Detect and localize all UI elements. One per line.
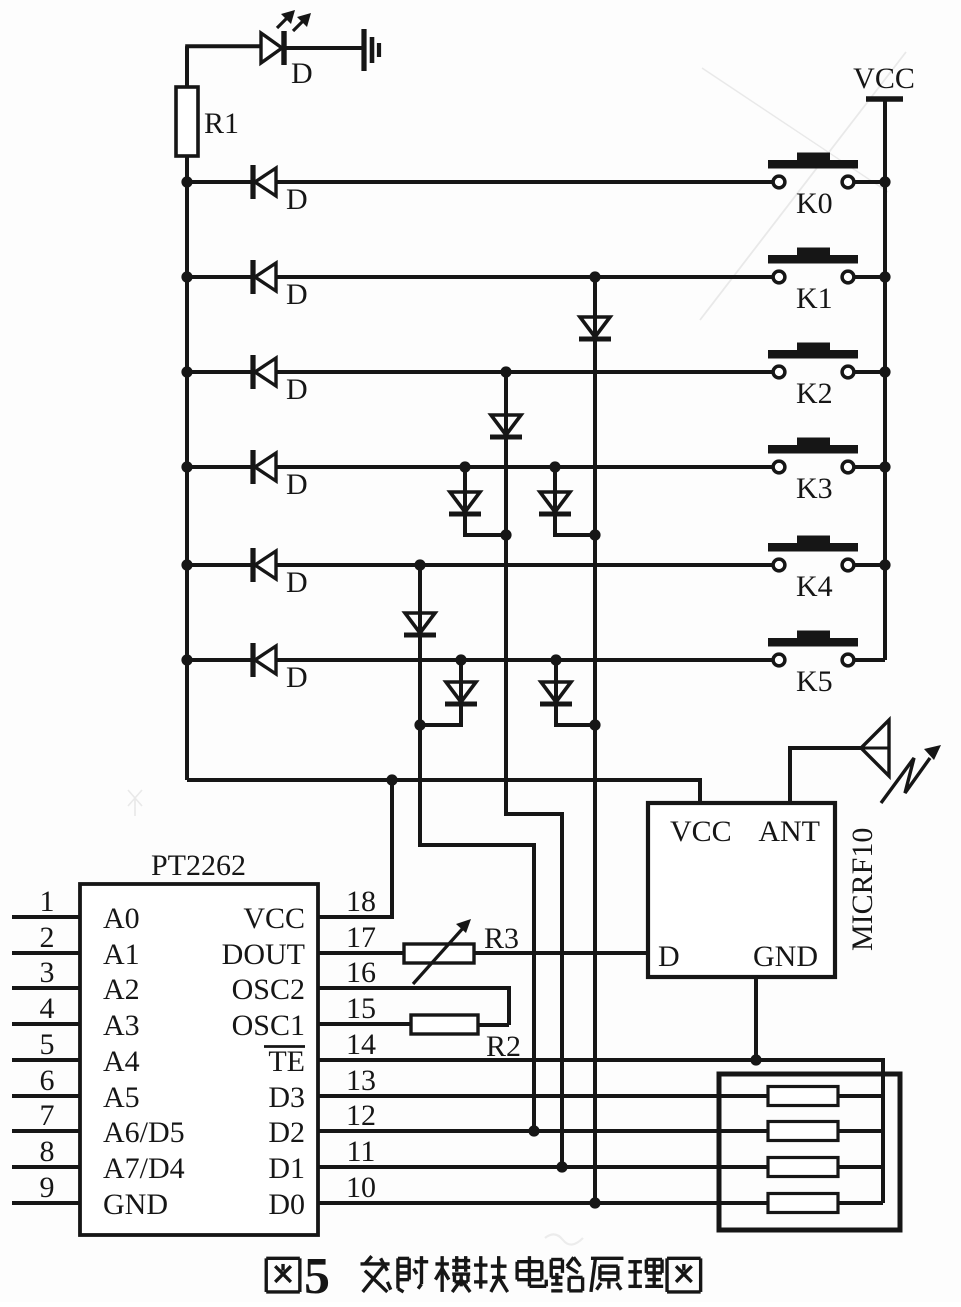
resistor R3	[404, 944, 474, 963]
svg-text:K5: K5	[796, 665, 833, 698]
junction right rail row 3	[879, 461, 890, 472]
junction right rail row 2	[879, 366, 890, 377]
junction left rail row 1	[181, 271, 192, 282]
pin 11 wire D1	[318, 1165, 768, 1169]
wire stub K3 left	[465, 467, 506, 535]
junction left rail row 0	[181, 176, 192, 187]
wire DOUT to MICRF10 D	[474, 951, 648, 955]
svg-text:VCC: VCC	[853, 62, 915, 95]
svg-text:A2: A2	[103, 973, 140, 1006]
svg-text:D: D	[291, 57, 313, 90]
svg-text:13: 13	[346, 1064, 376, 1097]
wire RN3 right	[838, 1165, 883, 1169]
switch K3	[773, 461, 785, 473]
wire LED anode	[185, 44, 261, 48]
svg-text:A4: A4	[103, 1045, 140, 1078]
svg-text:6: 6	[40, 1064, 55, 1097]
svg-text:9: 9	[40, 1171, 55, 1204]
svg-text:D0: D0	[268, 1188, 305, 1221]
wire RN1 right	[838, 1094, 883, 1098]
pin 17 wire DOUT	[318, 951, 404, 955]
resistor R1	[176, 87, 198, 156]
svg-text:MICRF10: MICRF10	[846, 828, 879, 951]
svg-text:5: 5	[40, 1028, 55, 1061]
antenna wave arrow	[881, 758, 930, 803]
pin 15 wire OSC1	[318, 1022, 411, 1026]
junction right rail row 4	[879, 559, 890, 570]
svg-text:A0: A0	[103, 902, 140, 935]
svg-text:OSC1: OSC1	[232, 1009, 305, 1042]
LED D	[261, 33, 282, 63]
junction stub K5 left top	[455, 654, 466, 665]
pin 5 wire	[12, 1058, 80, 1062]
svg-text:K4: K4	[796, 570, 833, 603]
diode K5 left	[446, 682, 476, 702]
svg-text:K0: K0	[796, 187, 833, 220]
svg-text:8: 8	[40, 1135, 55, 1168]
svg-text:VCC: VCC	[670, 815, 732, 848]
pin 8 wire	[12, 1165, 80, 1169]
right rail VCC	[883, 99, 887, 660]
wire row K5 left	[187, 658, 773, 662]
svg-text:4: 4	[40, 992, 55, 1025]
diode K3 right	[540, 492, 570, 512]
resistor RN3	[768, 1158, 838, 1177]
wire MICRF10 GND	[754, 977, 758, 1060]
svg-text:2: 2	[40, 921, 55, 954]
diode D row 4	[250, 548, 255, 582]
switch K0	[773, 176, 785, 188]
svg-text:D3: D3	[268, 1081, 305, 1114]
pin 7 wire	[12, 1129, 80, 1133]
svg-text:17: 17	[346, 921, 376, 954]
wire row K2 right	[855, 370, 886, 374]
svg-text:K3: K3	[796, 472, 833, 505]
wire R1 bottom	[185, 156, 189, 182]
wire row K2 left	[187, 370, 773, 374]
svg-text:GND: GND	[753, 940, 818, 973]
junction left rail row 4	[181, 559, 192, 570]
junction stub K3 left top	[459, 461, 470, 472]
svg-text:D: D	[286, 373, 308, 406]
pin 1 wire	[12, 915, 80, 919]
wire row K4 left	[187, 563, 773, 567]
diode V2a	[491, 415, 521, 435]
switch K2	[773, 366, 785, 378]
wire R2 right	[478, 1023, 509, 1027]
antenna	[861, 720, 889, 776]
junction left rail row 2	[181, 366, 192, 377]
wire stub K5 left	[420, 660, 461, 725]
wire row K5 right	[855, 658, 886, 662]
svg-text:OSC2: OSC2	[232, 973, 305, 1006]
junction right rail row 1	[879, 271, 890, 282]
svg-text:DOUT: DOUT	[222, 938, 305, 971]
pin 14 wire TE	[318, 1060, 883, 1203]
svg-text:D: D	[286, 183, 308, 216]
IC U2 MICRF10 box	[648, 803, 835, 977]
wire rail to MICRF10 VCC	[187, 780, 700, 803]
diode D row 2	[250, 355, 255, 389]
resistor RN4	[768, 1194, 838, 1213]
junction left rail row 5	[181, 654, 192, 665]
wire LED cathode to ground	[284, 46, 362, 50]
junction V1 top	[589, 271, 600, 282]
pin 2 wire	[12, 951, 80, 955]
svg-text:15: 15	[346, 992, 376, 1025]
svg-text:12: 12	[346, 1099, 376, 1132]
svg-text:A7/D4: A7/D4	[103, 1152, 185, 1185]
junction stub K5 right top	[550, 654, 561, 665]
svg-text:18: 18	[346, 885, 376, 918]
switch K4	[773, 559, 785, 571]
junction V3 mid	[414, 719, 425, 730]
wire MICRF10 ANT	[790, 748, 861, 803]
diode D row 0	[250, 165, 255, 199]
svg-text:A6/D5: A6/D5	[103, 1116, 185, 1149]
svg-text:VCC: VCC	[243, 902, 305, 935]
svg-text:K1: K1	[796, 282, 833, 315]
junction V1 mid1	[589, 529, 600, 540]
junction left rail row 3	[181, 461, 192, 472]
pin 4 wire	[12, 1022, 80, 1026]
switch K1	[773, 271, 785, 283]
wire pin18 link	[318, 780, 392, 917]
svg-text:D: D	[286, 278, 308, 311]
wire row K0 left	[187, 180, 773, 184]
wire row K3 left	[187, 465, 773, 469]
svg-text:D: D	[286, 468, 308, 501]
caption 图5	[266, 1258, 300, 1292]
wire V1 vertical	[593, 277, 597, 1203]
pin 3 wire	[12, 986, 80, 990]
svg-text:A3: A3	[103, 1009, 140, 1042]
svg-text:K2: K2	[796, 377, 833, 410]
svg-text:11: 11	[347, 1135, 376, 1168]
svg-text:ANT: ANT	[758, 815, 820, 848]
pin 16 wire OSC2	[318, 988, 509, 1025]
left rail	[185, 182, 189, 780]
pin 12 wire D2	[318, 1129, 768, 1133]
junction V2 bottom D1	[556, 1161, 567, 1172]
wire RN4 right	[838, 1201, 883, 1205]
pin 9 wire	[12, 1201, 80, 1205]
wire row K0 right	[855, 180, 886, 184]
svg-text:R3: R3	[484, 922, 519, 955]
wire row K3 right	[855, 465, 886, 469]
VCC bar	[866, 96, 903, 102]
svg-text:R1: R1	[204, 107, 239, 140]
junction stub K3 right top	[549, 461, 560, 472]
svg-text:10: 10	[346, 1171, 376, 1204]
svg-text:PT2262: PT2262	[151, 849, 246, 882]
pin 6 wire	[12, 1094, 80, 1098]
junction V3 bottom D2	[528, 1125, 539, 1136]
diode V1a	[580, 317, 610, 337]
diode V3a	[405, 613, 435, 633]
ground	[361, 29, 366, 71]
wire V3 vertical	[420, 565, 534, 1131]
svg-text:A1: A1	[103, 938, 140, 971]
switch K5	[773, 654, 785, 666]
wire row K4 right	[855, 563, 886, 567]
svg-text:1: 1	[40, 885, 55, 918]
wire stub K5 right	[556, 660, 595, 725]
junction pin18 tap	[386, 774, 397, 785]
IC U1 PT2262 box	[80, 884, 318, 1235]
svg-text:GND: GND	[103, 1188, 168, 1221]
wire RN2 right	[838, 1129, 883, 1133]
svg-text:5: 5	[304, 1248, 330, 1302]
svg-text:7: 7	[40, 1099, 55, 1132]
svg-text:16: 16	[346, 956, 376, 989]
R3 arrow	[413, 927, 464, 984]
pin 13 wire D3	[318, 1094, 768, 1098]
svg-text:14: 14	[346, 1028, 376, 1061]
wire stub K3 right	[555, 467, 595, 535]
junction V1 bottom D0	[589, 1197, 600, 1208]
diode K5 right	[541, 682, 571, 702]
diode D row 5	[250, 643, 255, 677]
svg-text:D2: D2	[268, 1116, 305, 1149]
diode D row 3	[250, 450, 255, 484]
svg-text:D: D	[658, 940, 680, 973]
svg-text:TE: TE	[268, 1045, 305, 1078]
junction TE GND	[750, 1054, 761, 1065]
DIP box	[719, 1074, 900, 1230]
wire row K1 left	[187, 275, 773, 279]
junction V1 mid2	[589, 719, 600, 730]
resistor RN2	[768, 1122, 838, 1141]
junction V3 top	[414, 559, 425, 570]
diode K3 left	[450, 492, 480, 512]
pin 10 wire D0	[318, 1201, 768, 1205]
junction V2 mid	[500, 529, 511, 540]
svg-text:D1: D1	[268, 1152, 305, 1185]
wire V2 vertical	[506, 372, 562, 1167]
caption title	[360, 1256, 390, 1292]
svg-text:A5: A5	[103, 1081, 140, 1114]
junction right rail row 0	[879, 176, 890, 187]
svg-text:D: D	[286, 661, 308, 694]
svg-text:3: 3	[40, 956, 55, 989]
LED arrows	[277, 16, 289, 28]
resistor R2	[411, 1015, 478, 1034]
junction V2 top	[500, 366, 511, 377]
diode D row 1	[250, 260, 255, 294]
svg-text:D: D	[286, 566, 308, 599]
resistor RN1	[768, 1087, 838, 1106]
wire row K1 right	[855, 275, 886, 279]
